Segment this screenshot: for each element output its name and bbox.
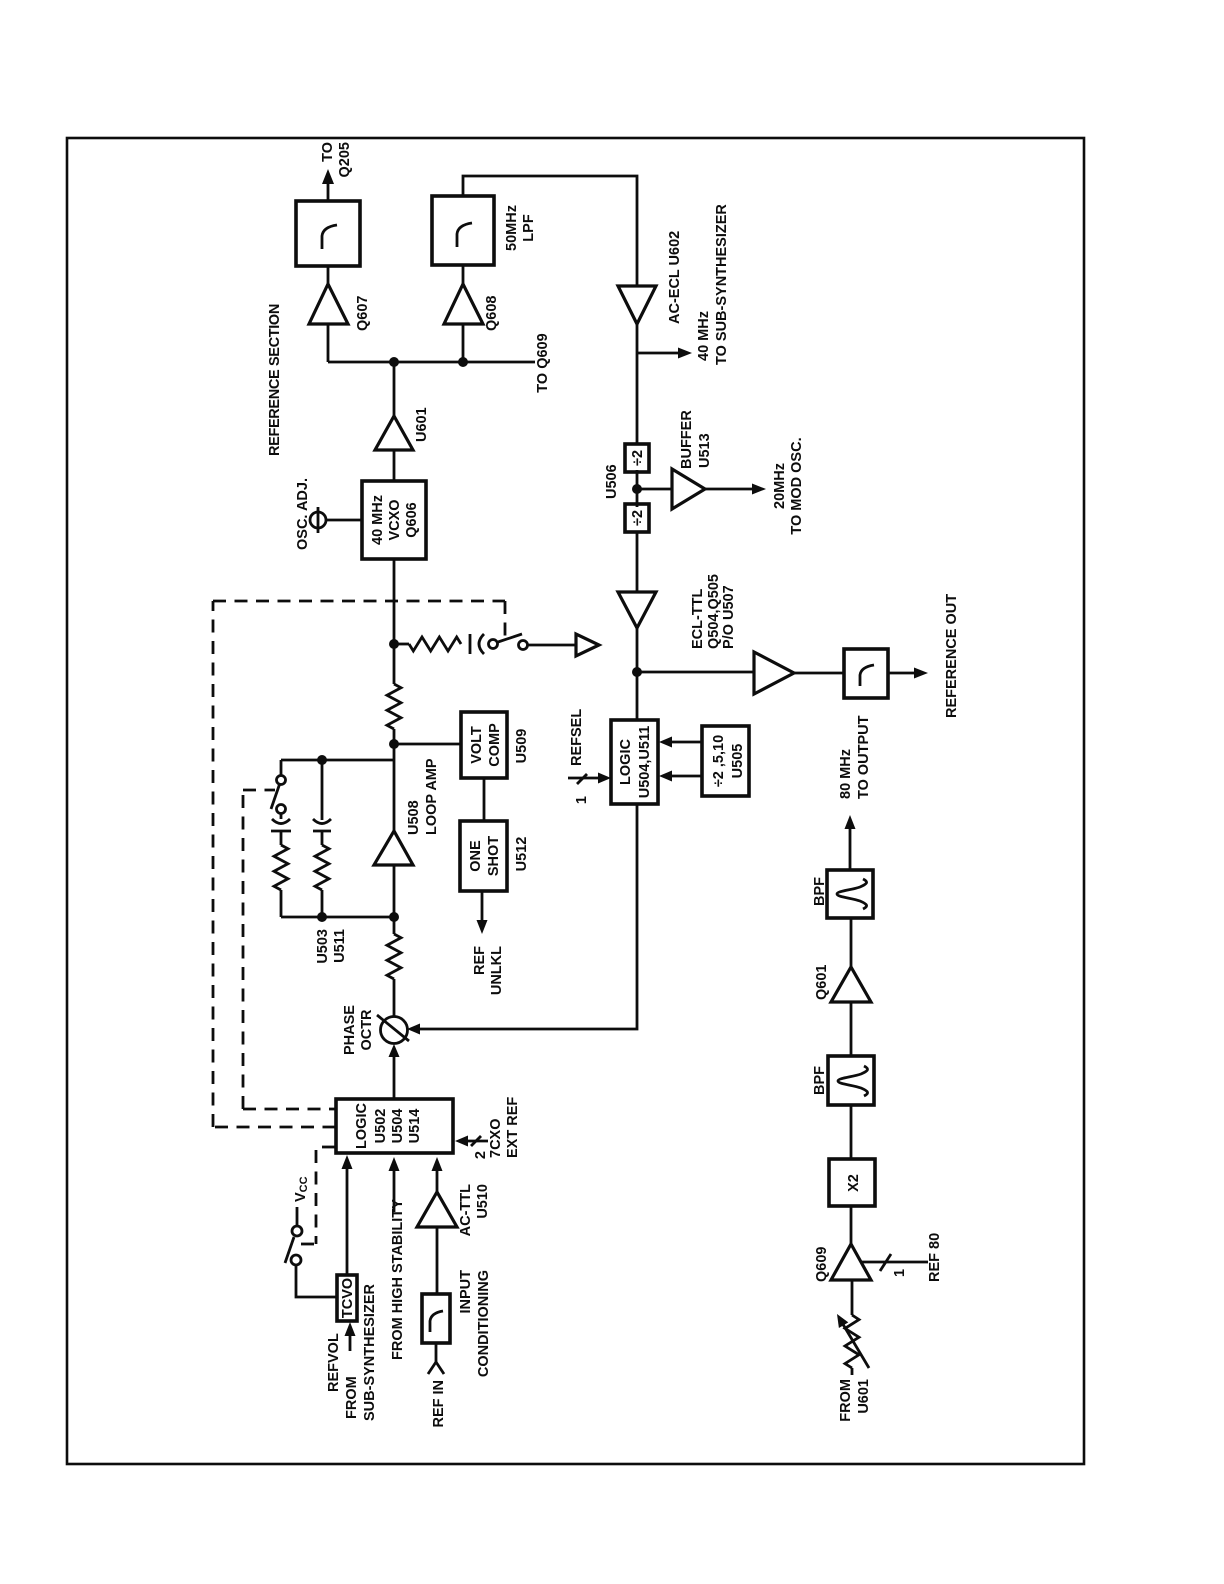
wire phase det to R1 [393, 979, 396, 1016]
wire VCXO to U601 [393, 450, 396, 481]
wire filter to TO Q205 arrow [327, 183, 330, 201]
arrow FROM HIGH STABILITY [393, 1170, 396, 1212]
arrow 7CXO EXT REF into LOGIC2 [467, 1140, 488, 1143]
wire left rail [281, 916, 394, 919]
svg-text:Q608: Q608 [484, 296, 500, 331]
divider box div2 second [625, 504, 649, 532]
svg-text:÷2: ÷2 [630, 450, 646, 466]
dashed line right edge [213, 600, 505, 603]
divider box U505 [702, 726, 749, 796]
switch S2 [489, 640, 498, 649]
phase detector slash [377, 1015, 409, 1041]
capacitor C3 [469, 634, 472, 654]
svg-text:FROM: FROM [838, 1379, 854, 1422]
svg-text:2: 2 [473, 1151, 489, 1159]
svg-text:÷2 ,5,10: ÷2 ,5,10 [711, 735, 727, 787]
amp AC-ECL U602 [618, 286, 656, 324]
svg-text:REFSEL: REFSEL [569, 709, 585, 766]
resistor R2 [387, 684, 401, 729]
dashed link to Vcc switch [315, 1150, 318, 1244]
wire S2 to spare buffer [528, 644, 576, 647]
multiplier box X2 [829, 1159, 875, 1206]
svg-text:OCTR: OCTR [359, 1009, 375, 1051]
trimmer OSC. ADJ. [310, 512, 326, 528]
filter box BPF (right) [827, 870, 873, 918]
op-amp U508 loop amp [374, 831, 413, 865]
switch S1 [277, 805, 286, 814]
svg-text:U509: U509 [514, 729, 530, 764]
svg-text:U505: U505 [730, 744, 746, 779]
dashed link to LOGIC2 (middle) [243, 1108, 336, 1111]
solid stub LOGIC2 top [322, 1146, 336, 1149]
svg-text:PHASE: PHASE [342, 1005, 358, 1055]
node junction C [632, 667, 642, 677]
wire X2 to BPF [850, 1105, 853, 1159]
branch 2: wire [321, 890, 324, 917]
dashed line middle [242, 790, 245, 1109]
wire R1 to junction [393, 917, 396, 934]
svg-text:U508: U508 [406, 800, 422, 835]
wire Q609 to X2 [850, 1206, 853, 1244]
svg-text:÷2: ÷2 [630, 510, 646, 526]
svg-text:TO: TO [320, 142, 336, 162]
svg-text:REF IN: REF IN [431, 1380, 447, 1428]
svg-text:40 MHz: 40 MHz [370, 495, 386, 545]
svg-text:AC-ECL U602: AC-ECL U602 [667, 231, 683, 324]
filter box 50MHz LPF [432, 196, 494, 265]
REF 80 input [862, 1261, 928, 1264]
svg-text:LOOP AMP: LOOP AMP [424, 758, 440, 835]
svg-text:REF 80: REF 80 [927, 1233, 943, 1282]
wire bus to Q607 [327, 324, 330, 362]
svg-text:Q607: Q607 [355, 296, 371, 331]
transistor amp Q608 [444, 284, 483, 324]
arrow LOGIC2 to phase det left [393, 1054, 396, 1099]
svg-text:P/O U507: P/O U507 [721, 585, 737, 649]
svg-text:BPF: BPF [812, 1066, 828, 1095]
wire U601 to bus [393, 362, 396, 416]
wire div2 to div2 [636, 470, 639, 507]
node right rail dot [317, 755, 327, 765]
svg-text:1: 1 [892, 1269, 908, 1277]
svg-text:40 MHz: 40 MHz [696, 311, 712, 361]
transistor amp Q601 [831, 967, 871, 1002]
border frame [67, 138, 1084, 1464]
wire LPF to AC-ECL [463, 176, 637, 286]
spare buffer triangle [576, 634, 599, 656]
node U506 junction [632, 484, 642, 494]
svg-text:Q504,Q505: Q504,Q505 [706, 574, 722, 649]
wire div2 to ECL-TTL [636, 533, 639, 592]
buffer U513 [637, 488, 672, 491]
switch S3 (Vcc) [292, 1226, 302, 1236]
svg-text:Q609: Q609 [814, 1247, 830, 1282]
wire LOGIC to phase det [419, 804, 637, 1029]
svg-text:COMP: COMP [487, 723, 503, 767]
arrow REFVOL into TCVO [349, 1335, 352, 1351]
svg-text:OSC. ADJ.: OSC. ADJ. [295, 478, 311, 550]
svg-text:REF: REF [472, 946, 488, 975]
svg-text:Q601: Q601 [814, 965, 830, 1000]
arrow 20MHz to mod osc [705, 488, 753, 491]
REFSEL input arrow [568, 777, 602, 780]
wire TCVO to LOGIC2 [346, 1167, 349, 1275]
svg-text:TCVO: TCVO [340, 1278, 356, 1318]
REF IN connector [435, 1343, 438, 1362]
svg-text:TO OUTPUT: TO OUTPUT [856, 715, 872, 799]
oscillator 40 MHz VCXO Q606 [362, 481, 426, 559]
svg-text:U601: U601 [414, 407, 430, 442]
logic box LOGIC U504,U511 [611, 720, 658, 804]
resistor R1 [387, 934, 401, 979]
svg-text:TO Q609: TO Q609 [535, 333, 551, 392]
wire R2 to junction E [393, 644, 396, 684]
wire Q607 to filter [327, 266, 330, 284]
node left rail dot [317, 912, 327, 922]
svg-text:U502: U502 [373, 1109, 389, 1144]
node: switch branch junction [389, 639, 399, 649]
arrow 80 MHz to output [849, 828, 852, 870]
svg-text:U512: U512 [514, 837, 530, 872]
comparator branch VOLT COMP U509 [461, 712, 507, 778]
node: bus junction B [458, 357, 468, 367]
svg-text:U503: U503 [315, 929, 331, 964]
amp AC-TTL U510 [417, 1192, 457, 1227]
wire amp to filter [794, 672, 844, 675]
svg-text:TO SUB-SYNTHESIZER: TO SUB-SYNTHESIZER [714, 204, 730, 365]
wire S3 to TCVO [296, 1265, 337, 1297]
svg-text:ECL-TTL: ECL-TTL [690, 588, 706, 649]
dashed control line top [212, 601, 215, 1127]
svg-text:50MHz: 50MHz [504, 205, 520, 251]
svg-text:LPF: LPF [521, 214, 537, 242]
branch with switch: wire [280, 890, 283, 917]
svg-text:AC-TTL: AC-TTL [458, 1184, 474, 1236]
svg-text:U511: U511 [332, 929, 348, 963]
svg-text:BPF: BPF [812, 877, 828, 906]
amp ECL-TTL Q504,Q505 P/O U507 [618, 592, 656, 628]
svg-text:REFERENCE SECTION: REFERENCE SECTION [267, 304, 283, 456]
arrow REF UNLKL [481, 891, 484, 921]
logic box LOGIC U502 U504 U514 [336, 1099, 453, 1153]
svg-text:EXT REF: EXT REF [505, 1097, 521, 1158]
wire Q608 to LPF [462, 265, 465, 284]
one shot U512 [460, 821, 507, 891]
resistor R4 [315, 845, 329, 890]
amp reference out buffer [754, 652, 794, 694]
svg-text:U513: U513 [697, 433, 713, 468]
svg-text:U504: U504 [390, 1109, 406, 1144]
wire AC-ECL to div2 [636, 324, 639, 444]
arrows U505 to LOGIC [668, 741, 702, 744]
svg-text:INPUT: INPUT [458, 1270, 474, 1314]
filter box (Q607 output LPF) [296, 201, 360, 266]
dashed stub to switch S2 [504, 601, 507, 644]
svg-text:1: 1 [574, 796, 590, 804]
amp U601 [375, 416, 413, 450]
svg-text:CONDITIONING: CONDITIONING [476, 1270, 492, 1377]
capacitor C1 [271, 830, 291, 833]
svg-text:Q606: Q606 [404, 502, 420, 537]
svg-text:SHOT: SHOT [486, 836, 502, 876]
svg-text:TO MOD OSC.: TO MOD OSC. [789, 437, 805, 534]
svg-text:BUFFER: BUFFER [679, 410, 695, 469]
wire junction to loop amp [393, 865, 396, 917]
wire BPF to Q601 [850, 1002, 853, 1056]
wire volt comp to one shot [483, 778, 486, 821]
svg-text:U506: U506 [604, 464, 620, 499]
wire junction E to VCXO [393, 559, 396, 644]
svg-text:VCXO: VCXO [387, 499, 403, 540]
svg-text:LOGIC: LOGIC [354, 1103, 370, 1149]
svg-text:FROM: FROM [344, 1376, 360, 1419]
svg-text:U510: U510 [475, 1184, 491, 1219]
transistor amp Q607 [309, 284, 348, 324]
variable resistor R6 [845, 1315, 859, 1368]
resistor R3 [274, 845, 288, 890]
svg-text:7CXO: 7CXO [488, 1119, 504, 1159]
resistor R5 [409, 637, 461, 651]
svg-text:Q205: Q205 [337, 142, 353, 177]
switch branch from junction E [394, 643, 409, 646]
filter box reference out [844, 649, 888, 698]
dashed link to LOGIC2 (top) [215, 1126, 336, 1129]
svg-text:UNLKL: UNLKL [489, 946, 505, 995]
svg-text:SUB-SYNTHESIZER: SUB-SYNTHESIZER [362, 1284, 378, 1421]
capacitor C2 [313, 830, 331, 833]
transistor amp Q609 [831, 1244, 871, 1280]
box TCVO [337, 1275, 357, 1321]
arrow reference out [888, 672, 915, 675]
svg-text:ONE: ONE [468, 840, 484, 872]
svg-text:VOLT: VOLT [469, 726, 485, 764]
wire to R2 [393, 729, 396, 744]
wire R6 to Q609 [851, 1280, 854, 1315]
svg-text:80 MHz: 80 MHz [838, 749, 854, 799]
node: bus junction A [389, 357, 399, 367]
svg-text:X2: X2 [846, 1174, 862, 1192]
node: volt comp branch junction [389, 739, 399, 749]
wire input conditioning to AC-TTL [436, 1227, 439, 1294]
filter box BPF (left) [828, 1056, 874, 1105]
wire ECL-TTL to junction C [636, 628, 639, 720]
dashed stub to switch S1 [243, 789, 275, 792]
svg-text:LOGIC: LOGIC [618, 739, 634, 785]
svg-text:REFERENCE OUT: REFERENCE OUT [944, 594, 960, 718]
svg-text:20MHz: 20MHz [772, 463, 788, 509]
node: bottom rail junction [389, 912, 399, 922]
wire loop amp to volt comp junction [393, 744, 396, 831]
branch 40 MHz to sub-synthesizer [637, 352, 679, 355]
wire bus to Q608 [462, 324, 465, 362]
wire Q601 to BPF [850, 918, 853, 967]
phase detector circle [381, 1017, 408, 1044]
wire to volt comp box [394, 743, 461, 746]
divider box div2 first [625, 444, 649, 472]
svg-text:U601: U601 [856, 1379, 872, 1414]
svg-text:FROM HIGH STABILITY: FROM HIGH STABILITY [390, 1199, 406, 1360]
svg-text:U504,U511: U504,U511 [637, 726, 653, 799]
wire junction C to ref out amp [637, 671, 754, 674]
wire right rail [281, 759, 394, 762]
svg-text:REFVOL: REFVOL [326, 1333, 342, 1392]
filter box input conditioning [422, 1294, 450, 1343]
wire top bus [328, 361, 535, 364]
svg-text:U514: U514 [407, 1109, 423, 1144]
